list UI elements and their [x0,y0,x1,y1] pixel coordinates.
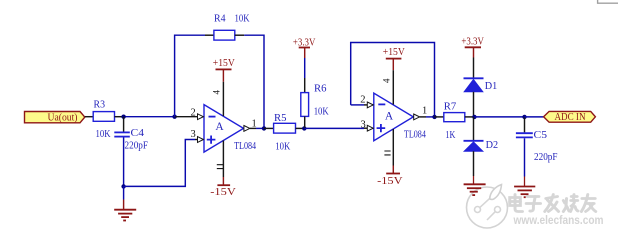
U1 inverting input minus sign [209,116,216,118]
svg-text:Ua(out): Ua(out) [48,111,78,123]
pin number 11 (U2 V-) [384,151,390,155]
svg-text:2: 2 [360,95,365,106]
svg-text:1K: 1K [445,129,455,141]
svg-text:3: 3 [191,129,196,140]
svg-text:R3: R3 [94,98,106,110]
power +3.3V mid [293,38,316,93]
power -15V op-amp1 [210,141,236,198]
feedback loop op-amp2 [351,43,435,117]
svg-text:+15V: +15V [383,47,405,58]
svg-text:2: 2 [191,108,196,119]
ground under C4 [114,186,136,220]
ground under C5 [514,177,535,198]
pin D1 to junction [473,92,475,117]
op-amp U1A triangle [204,105,257,153]
junction output op-amp2 [432,115,436,119]
svg-text:A: A [215,121,224,133]
pin arrow 2 op-amp2 [367,102,373,108]
wire junction to C5 node [474,116,524,118]
svg-text:10K: 10K [235,12,250,24]
port ADC IN [544,111,596,123]
pin D2 to ground [473,151,475,176]
resistor R6 [301,83,329,129]
watermark chinese text 电子发烧友 [510,195,596,212]
svg-text:R7: R7 [444,101,457,113]
port Ua(out) [25,111,85,123]
pin R3 right wire [115,116,124,118]
junction node feedback [172,115,176,119]
ground under D2 [464,176,486,195]
pin arrow 3 op-amp2 [367,125,373,131]
watermark corner mark top-right [598,0,618,3]
svg-text:C4: C4 [131,127,145,139]
junction R7/D1/D2 [472,115,476,119]
wire C4 to ground node [123,138,125,187]
resistor R5 [264,112,304,152]
feedback wire right riser [244,35,264,128]
wire input to R3 pin [85,116,93,118]
capacitor C5 [516,117,558,163]
svg-text:C5: C5 [534,129,548,141]
pin R4 left [205,34,214,36]
wire C5 to ground [524,138,526,176]
pin arrow 3 [198,137,204,143]
resistor R3 [93,98,114,140]
svg-text:10K: 10K [275,140,290,152]
junction output op-amp1 [262,126,266,130]
diode D2 [464,139,499,151]
pin junction to D2 [473,117,475,141]
wire op-amp2 pin2 [351,104,364,106]
svg-text:A: A [385,111,394,123]
U2 non-inverting input plus sign [377,124,386,132]
pin op-amp1 pin2 wire [175,116,204,118]
junction C5 [522,115,526,119]
svg-text:220pF: 220pF [125,140,149,152]
svg-text:1: 1 [422,106,427,117]
svg-text:4: 4 [382,78,392,83]
resistor R7 [435,101,475,142]
U2 inverting input minus sign [378,103,385,105]
svg-text:TL084: TL084 [404,130,427,141]
pin output wire [250,127,256,129]
svg-text:+3.3V: +3.3V [461,37,484,48]
svg-text:R6: R6 [314,83,327,95]
svg-text:TL084: TL084 [234,141,257,152]
pin output wire op-amp2 [420,116,426,118]
svg-text:10K: 10K [96,128,111,140]
svg-text:D2: D2 [486,139,499,151]
svg-text:R4: R4 [214,12,226,24]
U1 non-inverting input plus sign [207,136,216,144]
svg-text:220pF: 220pF [534,151,558,163]
junction ground node [121,184,125,188]
power +15V op-amp2 [382,47,406,105]
resistor R4 [214,12,250,40]
pin arrow output op-amp2 [414,114,420,120]
svg-text:3: 3 [361,120,366,131]
svg-text:D1: D1 [485,80,498,92]
pin number 11 (U1 V-) [217,165,223,169]
junction node R3/C4 [121,115,125,119]
pin R4 right [235,34,244,36]
pin arrow 2 [198,114,204,120]
pin arrow output 1 [244,126,250,132]
svg-text:ADC IN: ADC IN [555,112,586,123]
capacitor C4 [114,117,148,152]
power +3.3V right [461,37,484,78]
feedback wire left riser [175,35,205,117]
svg-text:R5: R5 [274,112,287,124]
svg-text:-15V: -15V [377,176,403,187]
pin op-amp1 pin3 wire [195,139,204,141]
power +15V op-amp1 [212,58,236,116]
svg-text:+15V: +15V [213,58,235,69]
svg-text:www.elecfans.com: www.elecfans.com [513,213,604,227]
diode D1 [464,78,498,92]
wire C5 node to port [525,116,544,118]
power -15V op-amp2 [377,129,403,187]
svg-text:-15V: -15V [210,187,236,198]
wire R5 junction to op-amp2 pin3 [304,127,364,129]
wire ground node to pin3 riser [124,140,195,187]
watermark logo circle [467,185,508,229]
junction R5/R6 [302,126,306,130]
op-amp U1B triangle [374,93,427,141]
svg-text:4: 4 [212,90,222,95]
wire node to pin2 [124,116,175,118]
svg-text:10K: 10K [314,106,329,118]
